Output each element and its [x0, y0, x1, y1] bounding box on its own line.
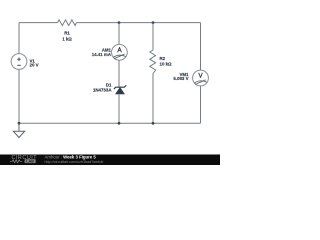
node junction ground: [18, 122, 21, 125]
wire left from top corner down to V1: [18, 23, 20, 54]
wire right from top corner down to voltmeter: [200, 23, 202, 71]
ground symbol: [13, 123, 24, 137]
svg-text:14.41 mA: 14.41 mA: [92, 52, 112, 57]
wire middle branch top to ammeter: [118, 23, 120, 45]
wire left from V1 down to bottom corner: [18, 69, 20, 123]
wire from diode down to bottom rail: [118, 94, 120, 124]
svg-text:20 V: 20 V: [30, 63, 39, 68]
CircuitLab logo LAB box: [25, 159, 36, 163]
wire right from voltmeter down to bottom corner: [200, 86, 202, 123]
svg-text:R1: R1: [64, 31, 70, 36]
node junction top of AM1 branch: [118, 21, 121, 24]
wire R2 branch top lead: [152, 23, 154, 51]
resistor R2: [150, 50, 156, 74]
svg-text:10 kΩ: 10 kΩ: [160, 61, 173, 66]
node junction bottom of diode branch: [118, 122, 121, 125]
svg-text:1N4733A: 1N4733A: [93, 87, 112, 92]
resistor R1: [58, 20, 77, 26]
wire R2 branch bottom lead: [152, 74, 154, 124]
wire bottom rail: [19, 122, 201, 124]
svg-text:Amhour : Week 3 Figure 5: Amhour : Week 3 Figure 5: [45, 154, 97, 159]
voltmeter VM1: [193, 70, 209, 86]
zener diode D1: [114, 85, 126, 94]
svg-text:http://circuitlab.com/czh3bad7: http://circuitlab.com/czh3bad7smb4r: [45, 160, 105, 164]
svg-text:1 kΩ: 1 kΩ: [62, 36, 72, 41]
svg-text:LAB: LAB: [26, 159, 34, 163]
ammeter AM1: [112, 44, 128, 60]
wire from ammeter down to diode: [118, 60, 120, 87]
node junction bottom of R2 branch: [152, 122, 155, 125]
voltage source V1: [11, 54, 27, 70]
node junction top of R2 branch: [152, 21, 155, 24]
wire top from R1 to right corner: [77, 22, 201, 24]
wire top from V1 corner to R1: [19, 22, 58, 24]
footer bar: [0, 154, 220, 165]
svg-text:5.083 V: 5.083 V: [173, 76, 188, 81]
CircuitLab logo resistor squiggle: [10, 160, 22, 163]
